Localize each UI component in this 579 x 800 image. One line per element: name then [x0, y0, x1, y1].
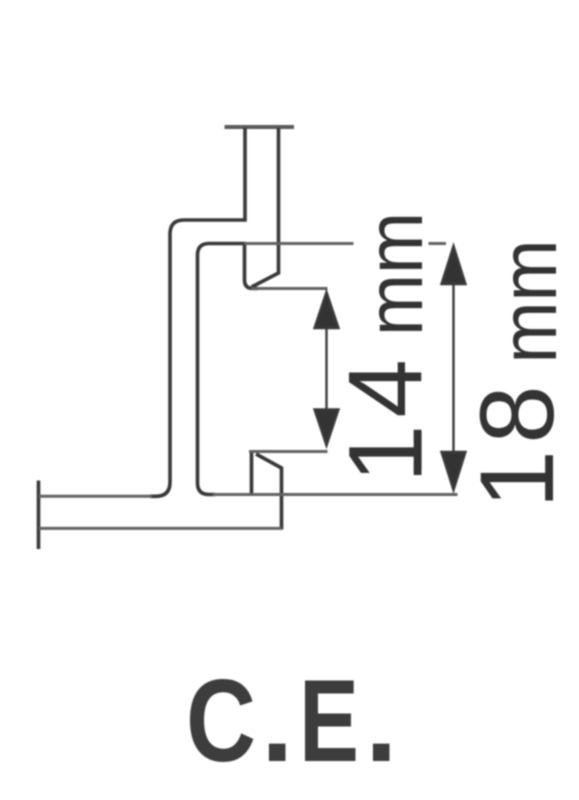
lower hook inner vertical [250, 453, 254, 494]
left stem + upper shoulder + long left outer wall + corner into bottom flange [150, 128, 245, 496]
svg-text:C: C [186, 655, 256, 786]
14mm top arrowhead [315, 292, 339, 328]
right stem vertical with flare diagonal [252, 128, 279, 287]
resumed segment of 243.5 line before 18mm arrow [429, 242, 447, 245]
svg-text:mm: mm [484, 240, 573, 364]
dimension 18 mm [442, 246, 466, 490]
svg-text:.: . [261, 655, 294, 786]
inner wall vertical with corners [198, 244, 247, 495]
svg-text:1: 1 [459, 450, 576, 508]
18mm top arrowhead [442, 246, 466, 284]
bottom outer flange line y=528.4 [39, 527, 282, 530]
top cap horizontal bar [225, 125, 295, 129]
foot serif of digit 1 (14) [416, 432, 421, 470]
svg-text:1: 1 [328, 425, 445, 483]
bottom inner-right reference line y=494.5 [213, 493, 458, 496]
foot serif of digit 1 (18) [548, 457, 553, 497]
14mm bottom arrowhead [315, 410, 339, 446]
channel bottom reference line y=288.5 [251, 287, 328, 290]
18mm dimension line [452, 255, 454, 482]
svg-text:8: 8 [459, 385, 576, 443]
blade inner left vertical with corner [245, 245, 259, 289]
lower hook top reference line y=451.5 [249, 450, 328, 453]
svg-text:4: 4 [328, 359, 445, 417]
14mm dimension line [325, 300, 327, 440]
svg-text:mm: mm [350, 212, 439, 336]
svg-text:.: . [365, 655, 398, 786]
left end tick [37, 481, 41, 550]
18mm bottom arrowhead [442, 452, 466, 490]
right lower hook outer vertical + diagonal [256, 454, 282, 530]
dimension 14 mm [315, 292, 339, 446]
bottom inner-left flange line y=496.3 [39, 495, 153, 498]
svg-text:E: E [299, 655, 359, 786]
channel top reference line y=243.5 [244, 242, 354, 245]
